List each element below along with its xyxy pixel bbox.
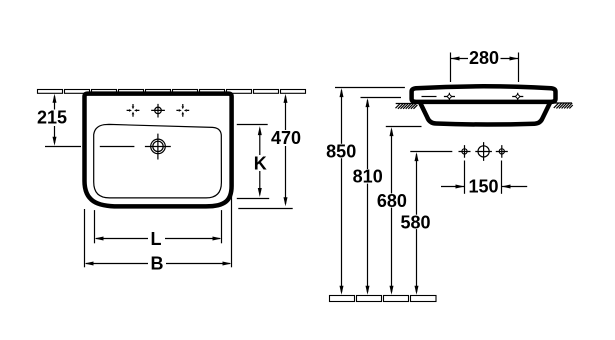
svg-text:B: B [151,254,164,274]
tap hole mark left (cross of inward arrows) [127,104,140,117]
mounting hole center (large circle with cross) [475,142,492,161]
washbasin rim (side view) [412,86,556,102]
svg-text:680: 680 [377,191,407,211]
mounting holes centerline [410,151,452,153]
basin inner bowl outline (front view) [94,124,222,197]
floor line (masonry rectangles) [330,296,437,302]
drain centerline [100,146,135,148]
svg-text:L: L [151,229,162,249]
wall section hatch left [396,104,418,109]
fixing hole cross left [444,93,455,100]
wall line (front view, masonry rectangles) [38,90,306,94]
dimension 150 [441,161,527,197]
svg-text:470: 470 [271,128,301,148]
svg-text:280: 280 [469,48,499,68]
drain / overflow symbol [145,134,171,160]
dimension 810 [353,98,401,295]
svg-text:150: 150 [468,177,498,197]
dimension B [85,195,232,274]
svg-text:850: 850 [326,141,356,161]
fixing hole dash [422,96,437,98]
tap hole center (circle with cross ticks) [151,104,165,118]
wall section hatch right [554,103,573,108]
fixing hole cross right [512,93,523,100]
mounting hole right (small circle with cross) [496,145,508,158]
dimension 850 [326,88,405,295]
svg-text:215: 215 [37,108,67,128]
dimension L [95,210,222,249]
svg-text:580: 580 [400,212,430,232]
dimension 215 [37,94,81,147]
mounting hole left (small circle with cross) [459,145,471,158]
dimension 280 (side view) [451,48,519,82]
svg-text:K: K [254,153,267,173]
dimension 580 [400,152,430,295]
dimension K [237,125,269,199]
dimension 680 [377,127,422,295]
svg-text:810: 810 [353,167,383,187]
dimension 470 [238,94,301,209]
basin bowl underside (side view) [420,103,550,125]
basin outer outline (front view) [85,94,232,207]
tap hole mark right (cross of inward arrows) [176,104,189,117]
